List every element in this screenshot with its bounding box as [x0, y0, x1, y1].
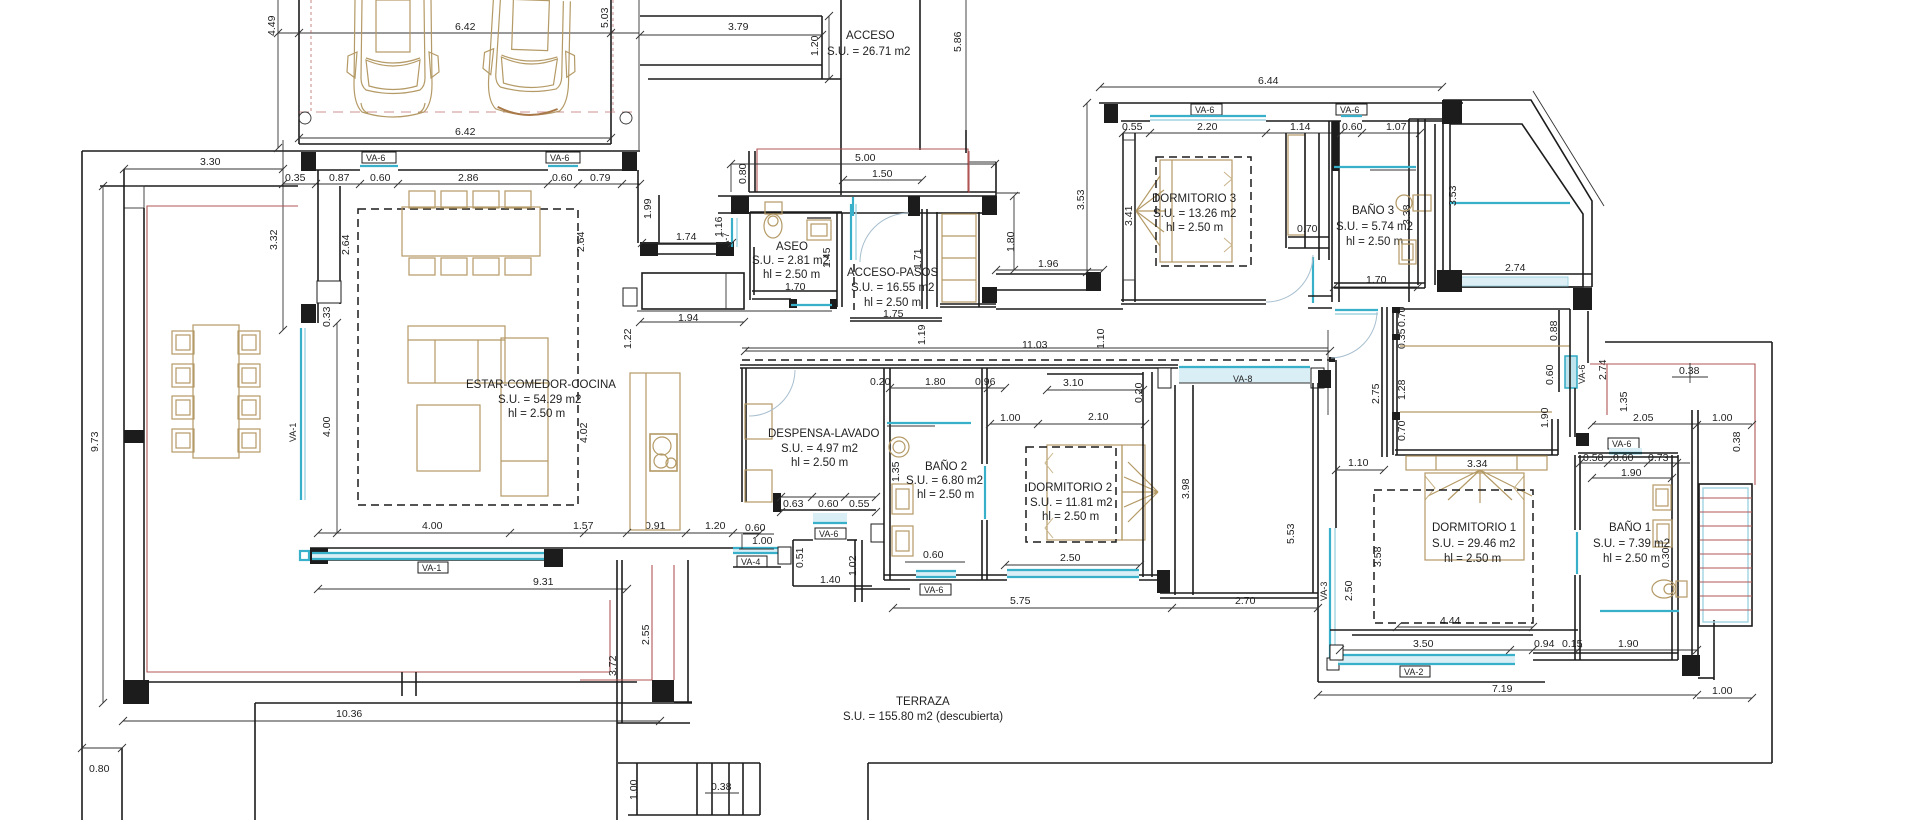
bottom wall d3	[1121, 299, 1266, 301]
entry door leaf cyan	[850, 204, 852, 260]
svg-text:VA-6: VA-6	[1340, 105, 1359, 115]
svg-text:S.U. = 13.26 m2: S.U. = 13.26 m2	[1153, 208, 1236, 220]
SECTION: dorm3	[1075, 75, 1463, 308]
svg-text:ACCESO: ACCESO	[846, 30, 895, 42]
svg-text:1.00: 1.00	[628, 779, 640, 800]
bano2 fixtures	[892, 484, 913, 514]
dim 6.44	[1100, 86, 1442, 88]
living dashed zone	[358, 209, 578, 505]
svg-text:1.14: 1.14	[1290, 121, 1311, 133]
svg-text:S.U. = 4.97 m2: S.U. = 4.97 m2	[781, 443, 858, 455]
svg-text:2.86: 2.86	[458, 172, 479, 184]
svg-text:0.79: 0.79	[590, 172, 611, 184]
closet shelves tan	[1400, 346, 1570, 412]
svg-text:0.35: 0.35	[285, 172, 306, 184]
svg-text:1.90: 1.90	[1539, 407, 1551, 428]
svg-text:3.10: 3.10	[1063, 377, 1084, 389]
dim vertical 4.49	[277, 0, 279, 148]
despensa door arc	[749, 370, 795, 416]
svg-text:0.88: 0.88	[1548, 320, 1560, 341]
bano2 bottom wall	[884, 574, 1007, 576]
pillar top-left d3	[1104, 104, 1118, 123]
svg-text:6.44: 6.44	[1258, 75, 1279, 87]
window VA-6 right	[546, 152, 580, 163]
svg-text:5.00: 5.00	[855, 152, 876, 164]
bed d2	[1045, 445, 1158, 540]
window VA-1 bottom	[312, 554, 544, 559]
dim line 6.42 bottom	[299, 137, 611, 139]
svg-text:BAÑO 3: BAÑO 3	[1352, 204, 1394, 217]
svg-text:11.03: 11.03	[1022, 339, 1048, 351]
SECTION: bottom	[580, 560, 1772, 820]
dim 1.10	[1336, 469, 1384, 471]
pillar d2 bottom	[1157, 570, 1170, 593]
closet east wall + bottom	[1551, 419, 1553, 455]
svg-text:3.72: 3.72	[607, 655, 619, 676]
svg-text:TERRAZA: TERRAZA	[896, 696, 950, 708]
SECTION: midrooms	[637, 130, 1103, 345]
pillar entrance mid	[908, 196, 920, 216]
dorm2 top wall inner	[1047, 373, 1143, 375]
svg-text:VA-4: VA-4	[741, 557, 760, 567]
dorm2 bottom wall + window	[1007, 571, 1139, 577]
svg-text:3.50: 3.50	[1413, 638, 1434, 650]
right stub walls	[965, 130, 967, 153]
closet top wall	[1397, 308, 1570, 310]
svg-text:0.60: 0.60	[1544, 364, 1556, 385]
dims bottom d1	[1340, 649, 1697, 651]
wall ticks bottom	[401, 672, 403, 696]
dining table	[402, 191, 540, 275]
svg-text:hl = 2.50 m: hl = 2.50 m	[1603, 553, 1660, 565]
despensa left wall	[741, 368, 743, 502]
svg-text:hl = 2.50 m: hl = 2.50 m	[1346, 236, 1403, 248]
svg-text:9.31: 9.31	[533, 576, 554, 588]
SECTION: bano3	[1331, 119, 1443, 358]
svg-text:VA-6: VA-6	[550, 153, 569, 163]
svg-text:VA-3: VA-3	[1319, 582, 1329, 601]
dim 5.00	[731, 163, 996, 165]
svg-text:1.22: 1.22	[622, 328, 634, 349]
dim 10.36	[123, 720, 660, 722]
wall right of b3	[1424, 119, 1426, 288]
kitchen counter top	[642, 273, 744, 309]
window VA-6 bano3	[1336, 104, 1367, 115]
svg-text:0.33: 0.33	[321, 306, 333, 327]
svg-text:1.90: 1.90	[1618, 638, 1639, 650]
dims b1	[1580, 462, 1690, 464]
window VA-7 vertical	[731, 218, 733, 247]
svg-text:0.60: 0.60	[745, 522, 766, 534]
right-mid wall under pentagon	[1558, 310, 1560, 392]
hall east walls	[1381, 307, 1383, 457]
left wall d3	[1122, 133, 1124, 302]
svg-text:0.63: 0.63	[783, 498, 804, 510]
SECTION: terrace-left	[82, 140, 692, 820]
ASEO walls	[750, 211, 842, 213]
svg-text:S.U. = 155.80 m2 (descubierta): S.U. = 155.80 m2 (descubierta)	[843, 711, 1003, 723]
SECTION: bano1	[1318, 410, 1752, 698]
pentagon inner	[1450, 124, 1583, 287]
red planter lines	[651, 565, 653, 680]
svg-text:0.70: 0.70	[1297, 223, 1318, 235]
svg-text:1.00: 1.00	[1000, 412, 1021, 424]
svg-text:hl = 2.50 m: hl = 2.50 m	[763, 269, 820, 281]
pillar bano1 corner	[1576, 433, 1589, 446]
aseo door cyan	[791, 304, 832, 306]
svg-text:1.80: 1.80	[1005, 231, 1017, 252]
svg-text:10.36: 10.36	[336, 708, 362, 720]
wall east of hall	[1335, 360, 1337, 528]
svg-text:0.51: 0.51	[794, 547, 806, 568]
driveway right jamb	[821, 16, 823, 79]
svg-text:S.U. = 54.29 m2: S.U. = 54.29 m2	[498, 394, 581, 406]
dim 9.73 vertical	[102, 186, 104, 703]
hall walls	[1174, 385, 1176, 595]
svg-text:3.41: 3.41	[1123, 205, 1135, 226]
svg-text:DORMITORIO 1: DORMITORIO 1	[1432, 522, 1516, 534]
dim 9.31	[318, 588, 627, 590]
svg-text:ACCESO-PASOS: ACCESO-PASOS	[847, 267, 938, 279]
svg-text:2.64: 2.64	[340, 234, 352, 255]
dashed box d1	[1374, 490, 1533, 623]
svg-text:0.20: 0.20	[870, 376, 891, 388]
svg-text:DORMITORIO 3: DORMITORIO 3	[1152, 193, 1236, 205]
pillar bottom-left living	[310, 548, 328, 564]
svg-text:5.03: 5.03	[599, 7, 611, 28]
svg-text:1.45: 1.45	[821, 247, 833, 268]
svg-text:4.00: 4.00	[422, 520, 443, 532]
vestibule pillar	[778, 547, 791, 564]
kitchen south wall thick	[616, 560, 618, 820]
top wall b1	[1578, 452, 1678, 454]
svg-text:2.55: 2.55	[640, 624, 652, 645]
svg-text:1.20: 1.20	[809, 35, 821, 56]
terrace top wall	[100, 185, 298, 187]
svg-text:S.U. = 11.81 m2: S.U. = 11.81 m2	[1030, 497, 1113, 509]
neck walls 1.96	[996, 273, 1101, 275]
parking dashed vertical	[310, 0, 312, 112]
garage bottom wall	[299, 143, 611, 145]
svg-text:2.75: 2.75	[1370, 383, 1382, 404]
svg-text:VA-6: VA-6	[1195, 105, 1214, 115]
svg-text:0.38: 0.38	[1679, 365, 1700, 377]
pillar acceso-pasos bottom	[982, 287, 997, 303]
SECTION: garage	[266, 0, 639, 150]
pillar b1	[1682, 655, 1700, 676]
svg-text:3.34: 3.34	[1467, 458, 1488, 470]
pentagon outer	[1443, 100, 1592, 287]
closet walls d1	[1392, 307, 1394, 455]
cabinet b3	[1399, 240, 1416, 264]
bano2 right wall	[981, 368, 983, 464]
house top wall	[299, 150, 640, 152]
wardrobe strip	[942, 214, 976, 302]
svg-text:VA-6: VA-6	[1612, 439, 1631, 449]
svg-text:0.73: 0.73	[1648, 452, 1669, 464]
svg-text:S.U. = 29.46 m2: S.U. = 29.46 m2	[1432, 538, 1515, 550]
window VA-6 bano2	[916, 572, 956, 577]
entry wall verticals	[840, 0, 842, 195]
window VA-1 left vertical	[300, 328, 302, 500]
SECTION: living	[283, 151, 781, 589]
garage right wall	[610, 0, 612, 144]
acceso-pasos right wall	[921, 209, 923, 309]
door leaf b1	[1576, 532, 1578, 574]
dim 1.70 b3	[1334, 286, 1418, 288]
pillar top-right	[622, 152, 637, 171]
svg-text:1.70: 1.70	[1366, 274, 1387, 286]
top-right red boundary	[1590, 364, 1755, 485]
svg-text:9.73: 9.73	[89, 431, 101, 452]
svg-text:VA-6: VA-6	[1577, 365, 1587, 384]
shower screen cyan	[1334, 166, 1416, 168]
door arc b3	[1331, 312, 1377, 358]
bottom wall b1	[1533, 652, 1678, 654]
planter box	[652, 680, 674, 702]
svg-text:1.94: 1.94	[678, 312, 699, 324]
door leaf b3 cyan	[1335, 309, 1378, 311]
svg-text:1.57: 1.57	[573, 520, 594, 532]
door arc d3	[1266, 255, 1313, 302]
pillar bottom-left	[123, 680, 149, 704]
toilet	[764, 202, 782, 238]
svg-text:1.10: 1.10	[1095, 328, 1107, 349]
svg-text:hl = 2.50 m: hl = 2.50 m	[917, 489, 974, 501]
svg-text:VA-6: VA-6	[366, 153, 385, 163]
svg-text:VA-1: VA-1	[288, 423, 298, 442]
window VA-6 despensa	[813, 513, 847, 522]
svg-text:BAÑO 2: BAÑO 2	[925, 460, 967, 473]
entrance top wall	[718, 195, 996, 197]
svg-text:S.U. = 6.80 m2: S.U. = 6.80 m2	[906, 475, 983, 487]
svg-text:hl = 2.50 m: hl = 2.50 m	[508, 408, 565, 420]
terrace bottom wall	[124, 681, 637, 683]
svg-text:DORMITORIO 2: DORMITORIO 2	[1028, 482, 1112, 494]
svg-text:VA-8: VA-8	[1233, 374, 1252, 384]
porch bottom line	[749, 191, 996, 193]
svg-text:0.60: 0.60	[923, 549, 944, 561]
window VA-6 b1	[1608, 438, 1639, 449]
svg-text:ASEO: ASEO	[776, 241, 808, 253]
despensa dims	[781, 496, 876, 498]
svg-text:6.42: 6.42	[455, 126, 476, 138]
svg-text:1.35: 1.35	[890, 461, 902, 482]
dimension ticks	[78, 12, 1756, 752]
svg-text:4.02: 4.02	[578, 422, 590, 443]
washer	[889, 437, 909, 457]
living left wall	[317, 170, 319, 323]
window VA-6 d3	[1191, 104, 1222, 115]
svg-text:5.86: 5.86	[952, 31, 964, 52]
SECTION: acceso-top	[599, 0, 996, 195]
svg-text:1.20: 1.20	[705, 520, 726, 532]
sink b3	[1396, 195, 1412, 211]
svg-text:6.42: 6.42	[455, 21, 476, 33]
living bottom dims	[318, 532, 760, 534]
diagonal ticks	[1533, 91, 1604, 206]
red vertical kitchen-side	[609, 600, 611, 672]
bano2 bottom dim	[905, 561, 965, 563]
svg-text:0.96: 0.96	[975, 376, 996, 388]
svg-text:1.96: 1.96	[1038, 258, 1059, 270]
svg-text:0.60: 0.60	[370, 172, 391, 184]
bano2 left wall	[883, 368, 885, 580]
window VA-6 vertical right	[1565, 356, 1577, 388]
svg-text:3.58: 3.58	[1372, 546, 1384, 567]
entry door jamb cyan	[852, 197, 854, 216]
dim row top	[283, 183, 640, 185]
driveway lower edges	[640, 64, 822, 66]
svg-text:VA-6: VA-6	[819, 529, 838, 539]
svg-text:2.70: 2.70	[1235, 595, 1256, 607]
pillar pentagon bottom-left	[1437, 270, 1462, 292]
acceso-pasos bottom wall	[850, 317, 942, 319]
svg-text:0.38: 0.38	[711, 781, 732, 793]
outer boundary top	[82, 150, 299, 152]
despensa cabinets	[745, 404, 772, 439]
dim line 6.42 top	[278, 32, 639, 34]
svg-text:ESTAR-COMEDOR-COCINA: ESTAR-COMEDOR-COCINA	[466, 379, 616, 391]
svg-text:0.80: 0.80	[89, 763, 110, 775]
dim 1.94	[640, 321, 744, 323]
porch red outline	[757, 149, 968, 192]
bottom stair	[618, 763, 760, 815]
svg-text:hl = 2.50 m: hl = 2.50 m	[1042, 511, 1099, 523]
svg-text:7.19: 7.19	[1492, 683, 1513, 695]
SECTION: corridor	[740, 309, 1335, 415]
pillar kitchen corner	[623, 288, 637, 306]
bottom wall b3	[1334, 282, 1425, 284]
svg-text:0.80: 0.80	[737, 163, 749, 184]
window VA-8	[1179, 368, 1310, 383]
pillar mid bottom	[544, 549, 563, 567]
svg-text:VA-7: VA-7	[721, 233, 731, 252]
bano2 door leaf	[984, 466, 986, 519]
dims top b1	[1592, 423, 1752, 425]
top wall	[1099, 102, 1463, 104]
car 1	[347, 0, 439, 117]
right wall b1	[1671, 455, 1673, 660]
despensa bottom wall	[781, 509, 876, 511]
svg-text:1.74: 1.74	[676, 231, 697, 243]
window VA-6 left	[362, 152, 396, 163]
svg-text:2.74: 2.74	[1505, 262, 1526, 274]
svg-text:2.50: 2.50	[1060, 552, 1081, 564]
wall band south of stub	[640, 243, 734, 245]
dim 11.03	[745, 350, 1330, 352]
svg-text:1.19: 1.19	[916, 324, 928, 345]
svg-text:2.50: 2.50	[1343, 580, 1355, 601]
svg-text:1.00: 1.00	[1712, 412, 1733, 424]
svg-text:2.20: 2.20	[1197, 121, 1218, 133]
SECTION: dorm1	[1318, 307, 1697, 677]
outer boundary left	[81, 151, 83, 820]
svg-text:hl = 2.50 m: hl = 2.50 m	[1166, 222, 1223, 234]
entry dashed line	[853, 264, 855, 310]
svg-text:3.32: 3.32	[268, 229, 280, 250]
dim 1.00 right	[1697, 697, 1752, 699]
vestibule walls	[793, 539, 813, 541]
svg-text:4.44: 4.44	[1440, 615, 1461, 627]
window VA-4	[733, 548, 781, 553]
svg-text:0.70: 0.70	[1396, 420, 1408, 441]
window VA-3	[1329, 528, 1331, 658]
dim 1.50	[843, 179, 922, 181]
door leaf d3	[1312, 257, 1314, 303]
dim 3.30	[124, 168, 283, 170]
svg-text:1.90: 1.90	[1621, 467, 1642, 479]
svg-text:1.00: 1.00	[1712, 685, 1733, 697]
corner post	[124, 186, 144, 208]
corner sq cyan	[300, 551, 309, 560]
svg-text:1.35: 1.35	[1618, 391, 1630, 412]
svg-text:S.U. = 2.81 m2: S.U. = 2.81 m2	[752, 255, 829, 267]
stair shaft walls	[1691, 410, 1693, 663]
svg-text:VA-2: VA-2	[1404, 667, 1423, 677]
svg-text:3.30: 3.30	[200, 156, 221, 168]
svg-text:0.87: 0.87	[329, 172, 350, 184]
svg-text:VA-1: VA-1	[422, 563, 441, 573]
dorm2 dims top	[990, 423, 1145, 425]
corridor top line	[742, 347, 1328, 349]
pillar entrance left	[731, 196, 749, 214]
sofa	[408, 326, 548, 496]
dashed box d3	[1156, 157, 1251, 266]
dim 2.50 d2	[1005, 564, 1140, 566]
pillar mid-left	[301, 304, 316, 323]
top-right black boundary	[1605, 341, 1772, 343]
corridor bottom wall	[740, 364, 1178, 366]
pillar top-left	[301, 152, 316, 171]
right wall d3	[1318, 133, 1320, 260]
red entry right	[968, 151, 970, 193]
svg-text:5.75: 5.75	[1010, 595, 1031, 607]
svg-text:VA-6: VA-6	[924, 585, 943, 595]
dim line 3.79	[640, 34, 822, 36]
driveway top edge	[640, 15, 822, 17]
dashed box d2	[1026, 447, 1116, 542]
svg-text:DESPENSA-LAVADO: DESPENSA-LAVADO	[768, 428, 879, 440]
right wall b3	[1408, 119, 1410, 302]
jamb bano2 left	[871, 524, 884, 542]
dim 1.74	[642, 242, 732, 244]
svg-text:1.28: 1.28	[1396, 379, 1408, 400]
kitchen island	[630, 373, 680, 530]
svg-text:2.10: 2.10	[1088, 411, 1109, 423]
bed d3	[1136, 160, 1232, 262]
svg-text:1.50: 1.50	[872, 168, 893, 180]
parking dashed line	[299, 111, 639, 113]
red perimeter	[147, 206, 610, 672]
svg-text:1.99: 1.99	[642, 198, 654, 219]
pillar pentagon bottom-right	[1573, 288, 1592, 310]
svg-text:0.60: 0.60	[818, 498, 839, 510]
fixtures b1	[1653, 485, 1671, 510]
cyan line b1	[1600, 610, 1679, 612]
svg-text:BAÑO 1: BAÑO 1	[1609, 521, 1651, 534]
pillar pentagon top-left	[1442, 100, 1462, 124]
svg-text:0.60: 0.60	[1342, 121, 1363, 133]
bollard circle right	[620, 112, 632, 124]
svg-text:0.60: 0.60	[552, 172, 573, 184]
svg-text:1.07: 1.07	[1386, 121, 1407, 133]
svg-text:S.U. = 26.71 m2: S.U. = 26.71 m2	[827, 46, 910, 58]
svg-text:hl = 2.50 m: hl = 2.50 m	[791, 457, 848, 469]
svg-text:4.49: 4.49	[266, 15, 278, 36]
dim 7.19	[1318, 694, 1697, 696]
svg-text:1.02: 1.02	[847, 555, 859, 576]
